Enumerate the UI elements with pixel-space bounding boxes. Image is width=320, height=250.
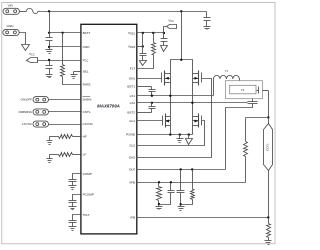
- fuse F1: [26, 8, 40, 13]
- ground (triangle): [188, 135, 190, 139]
- resistor R6 (divider): [192, 170, 194, 190]
- svg-text:PGND: PGND: [126, 133, 136, 137]
- svg-text:MAX8709A: MAX8709A: [97, 104, 120, 109]
- capacitor C12 (sec low): [252, 99, 254, 102]
- svg-text:CCFL: CCFL: [265, 143, 269, 151]
- wire bridge top: [171, 60, 193, 74]
- resistor R2 (HF): [50, 136, 59, 138]
- resistor R3 (LF): [50, 154, 59, 156]
- lamp CCFL: [268, 118, 270, 124]
- svg-text:VFB: VFB: [129, 180, 135, 184]
- svg-text:BATT: BATT: [83, 31, 91, 35]
- svg-text:VDD1: VDD1: [128, 31, 136, 36]
- capacitor C11 (ballast): [257, 90, 259, 92]
- ground: [49, 137, 51, 141]
- capacitor C10 (BST2): [151, 103, 153, 107]
- resistor R1 (RATE): [62, 33, 64, 65]
- svg-text:GH2: GH2: [129, 156, 136, 160]
- ground: [69, 206, 77, 208]
- ground: [69, 226, 77, 228]
- wire bottom leads: [170, 126, 172, 135]
- wire: [20, 33, 26, 45]
- node GND pin: [48, 46, 50, 48]
- ground: [265, 240, 272, 242]
- svg-text:BST1: BST1: [127, 85, 135, 89]
- svg-text:GL2: GL2: [129, 143, 135, 147]
- transformer T1 body: [226, 81, 263, 99]
- wire IFB: [137, 217, 269, 219]
- svg-text:TFLT: TFLT: [83, 213, 90, 217]
- transistor Q3 (bottom left): [137, 120, 163, 122]
- svg-text:VCC: VCC: [29, 52, 35, 57]
- wire LSYNC: [49, 124, 81, 126]
- capacitor C5 (TFLT): [73, 215, 81, 221]
- svg-text:LX1: LX1: [130, 94, 136, 98]
- svg-text:VCC: VCC: [168, 19, 174, 24]
- ground: [140, 61, 147, 66]
- svg-text:DLF: DLF: [129, 168, 135, 172]
- wire SHDN: [49, 99, 81, 101]
- wire right column: [192, 83, 194, 117]
- resistor R8 (current sense): [268, 218, 270, 224]
- svg-text:GND: GND: [83, 45, 91, 49]
- wire DLF: [137, 169, 226, 171]
- capacitor C14 (divider): [180, 170, 182, 191]
- wire: [20, 11, 27, 13]
- ground: [49, 155, 51, 159]
- svg-text:LF: LF: [83, 153, 87, 157]
- ground: [156, 206, 163, 208]
- capacitor C3 (COMP): [73, 174, 81, 180]
- ground: [69, 185, 77, 187]
- wire lamp bottom: [268, 171, 270, 218]
- ground: [22, 45, 30, 51]
- node VIN-A: [48, 10, 50, 12]
- ground: [46, 74, 53, 76]
- svg-text:VDD2: VDD2: [128, 45, 136, 50]
- capacitor C9 (BST1): [137, 86, 152, 88]
- wire to lamp: [268, 91, 270, 118]
- resistor R7 (HV sense): [246, 117, 269, 119]
- wire LX2: [137, 102, 248, 104]
- ground: [161, 46, 168, 52]
- transistor Q2 (top right): [198, 71, 200, 86]
- transistor Q1 (top left): [137, 78, 162, 80]
- wire GL2: [137, 121, 205, 146]
- svg-text:LSYNC: LSYNC: [22, 122, 33, 126]
- svg-text:SHDN: SHDN: [83, 98, 92, 102]
- svg-text:GND: GND: [7, 24, 15, 28]
- svg-text:RATE: RATE: [83, 83, 91, 87]
- svg-text:GL1: GL1: [129, 119, 135, 123]
- ground SEL: [73, 72, 75, 75]
- capacitor C1: [46, 37, 53, 39]
- svg-text:PCOMP: PCOMP: [83, 192, 94, 196]
- transformer T1 primary coil: [213, 79, 215, 96]
- svg-text:BST2: BST2: [127, 110, 135, 114]
- svg-text:VIN: VIN: [8, 3, 13, 7]
- capacitor C13 (VFB): [170, 183, 172, 191]
- wire VFB: [137, 182, 246, 184]
- svg-text:DIMMING: DIMMING: [19, 110, 33, 114]
- node VIN-B: [180, 10, 182, 12]
- wire CNTL: [49, 111, 81, 113]
- wire BATT: [50, 32, 81, 34]
- svg-text:FLT: FLT: [130, 66, 135, 70]
- resistor R4 (FLT pullup): [153, 33, 155, 43]
- wire PGND: [137, 134, 193, 136]
- capacitor C6: [142, 33, 144, 54]
- wire GH2: [137, 79, 212, 158]
- wire VDD1: [137, 32, 164, 34]
- svg-text:LSYNC: LSYNC: [83, 122, 94, 126]
- svg-text:LX2: LX2: [130, 101, 136, 105]
- wire: [49, 12, 51, 38]
- capacitor C2: [49, 61, 51, 66]
- svg-text:VCC: VCC: [83, 58, 89, 63]
- transistor Q4 (bottom right): [198, 114, 200, 128]
- capacitor C7: [163, 33, 165, 39]
- wire SEL: [74, 71, 81, 73]
- node IFB: [267, 216, 269, 218]
- node VCC: [48, 59, 50, 61]
- svg-text:COMP: COMP: [83, 172, 92, 176]
- svg-text:CNTL: CNTL: [83, 110, 91, 114]
- svg-text:GH1: GH1: [129, 76, 136, 80]
- wire RATE: [63, 77, 81, 85]
- wire VCC: [38, 60, 81, 62]
- resistor R5 (VFB): [158, 183, 160, 187]
- capacitor C8 (VIN bypass): [206, 12, 208, 18]
- ground: [49, 47, 51, 50]
- svg-text:SEL: SEL: [83, 70, 89, 74]
- wire GND pin: [50, 46, 81, 48]
- svg-text:HF: HF: [83, 135, 87, 139]
- ground: [204, 26, 211, 28]
- wire VDD2: [137, 46, 143, 48]
- wire VIN rail: [41, 11, 207, 13]
- svg-text:T1: T1: [241, 88, 245, 92]
- svg-text:ON/OFF: ON/OFF: [21, 98, 32, 102]
- wire left column: [170, 83, 172, 117]
- capacitor C4 (PCOMP): [73, 195, 81, 201]
- wire LX1: [137, 95, 214, 97]
- svg-text:IFB: IFB: [130, 216, 135, 220]
- IC U1 MAX8709A: [81, 24, 137, 234]
- node lamp top: [267, 116, 269, 118]
- ground (bars): [179, 135, 181, 139]
- ground: [178, 206, 185, 208]
